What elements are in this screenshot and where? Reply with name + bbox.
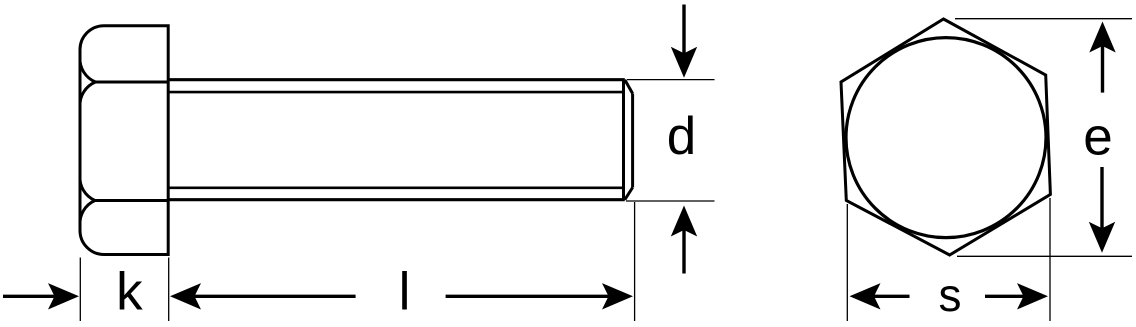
head chamfer arc bottom xyxy=(80,201,95,226)
dimension s left arrow shaft xyxy=(874,295,910,298)
extension line k right xyxy=(168,258,170,322)
shaft outer top line xyxy=(168,78,625,81)
dimension d down arrow shaft xyxy=(682,5,685,54)
dimension s left arrowhead xyxy=(850,283,881,309)
dimension l right arrowhead xyxy=(602,283,633,309)
svg-text:k: k xyxy=(116,263,143,322)
svg-text:e: e xyxy=(1083,108,1112,167)
svg-text:d: d xyxy=(667,107,696,166)
dimension s right arrowhead xyxy=(1017,283,1048,309)
dimension k arrow shaft xyxy=(3,295,55,298)
dimension d down arrowhead xyxy=(671,47,697,78)
dimension l left arrow shaft xyxy=(195,295,356,298)
dimension l left arrowhead xyxy=(170,283,201,309)
dimension e up arrow shaft xyxy=(1101,46,1104,93)
dimension d up arrow shaft xyxy=(682,230,685,274)
svg-text:s: s xyxy=(939,269,962,321)
dimension e extension line top xyxy=(955,18,1132,20)
extension line s right xyxy=(1049,198,1051,321)
extension line l right xyxy=(634,202,636,321)
thread runout vertical xyxy=(622,80,625,200)
dimension k arrowhead xyxy=(48,283,79,309)
head chamfer arc middle lower xyxy=(80,176,95,201)
extension line s left xyxy=(846,204,848,321)
dimension e extension line bottom xyxy=(957,255,1132,257)
dimension s right arrow shaft xyxy=(985,295,1024,298)
svg-text:l: l xyxy=(399,263,411,322)
bolt end face xyxy=(631,94,634,188)
bolt tip chamfer bottom xyxy=(625,188,633,200)
dimension e down arrow shaft xyxy=(1100,167,1103,228)
thread root top line xyxy=(168,91,623,94)
head chamfer arc middle upper xyxy=(80,82,96,107)
dimension e down arrowhead xyxy=(1089,222,1115,253)
head chamfer circle xyxy=(846,38,1046,238)
dimension d up arrowhead xyxy=(671,206,697,237)
head chamfer arc top xyxy=(80,57,96,82)
dimension l right arrow shaft xyxy=(446,295,609,298)
head facet line bottom xyxy=(95,199,168,202)
head facet line top xyxy=(96,81,169,84)
bolt tip chamfer top xyxy=(625,80,633,94)
dimension d extension line top xyxy=(627,79,715,81)
hex head outline xyxy=(841,19,1050,255)
bolt head silhouette xyxy=(80,26,168,255)
dimension d extension line bottom xyxy=(626,200,715,202)
dimension e up arrowhead xyxy=(1089,22,1115,53)
extension line k left xyxy=(79,258,81,322)
thread root bottom line xyxy=(168,187,623,190)
shaft outer bottom line xyxy=(168,198,625,201)
